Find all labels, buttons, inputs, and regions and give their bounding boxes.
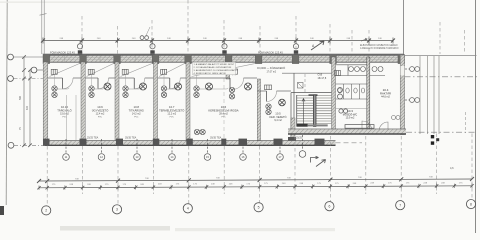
stair walk line	[302, 99, 305, 125]
fom magok line	[43, 53, 405, 55]
thin wall 10.5/stair lobby	[291, 73, 294, 140]
radiator washroom	[335, 71, 341, 76]
left axis bubble C	[8, 142, 14, 148]
svg-text:10.5: 10.5	[275, 112, 281, 116]
fixtures room 10.6	[206, 83, 252, 90]
tick on edge	[40, 14, 47, 16]
left vertical dim lines	[22, 55, 32, 147]
main south wall	[43, 139, 336, 141]
intermediate axis stubs	[83, 188, 437, 194]
svg-text:PVC: PVC	[98, 116, 103, 118]
radiator room 10.6 right bay	[231, 69, 272, 90]
dash-dot line upper right	[405, 76, 478, 78]
overall dim line	[37, 177, 474, 183]
label 10.4	[380, 88, 391, 99]
detail dim line	[37, 184, 473, 190]
svg-text:ELBONTANDO VASBETON GEREN: ELBONTANDO VASBETON GEREN	[360, 44, 398, 47]
left axis bubble E	[8, 54, 14, 60]
window piers	[43, 55, 405, 64]
washroom partition	[367, 57, 370, 131]
svg-text:2: 2	[45, 209, 47, 213]
cupboard room 10.10	[66, 95, 68, 141]
section line A vertical	[403, 0, 405, 57]
fixture circle room 10.8	[140, 83, 147, 90]
partition wall 4	[186, 62, 190, 141]
svg-text:7: 7	[399, 204, 401, 208]
svg-text:12,2 m2: 12,2 m2	[167, 113, 176, 116]
svg-text:3. ÁLMENNYEZET: 10 CM ÁSVÁNYGY: 3. ÁLMENNYEZET: 10 CM ÁSVÁNYGYAPOT	[194, 69, 239, 72]
room 10.8 TITKÁRSÁG	[119, 64, 154, 98]
thin wall 10.6/10.5	[257, 79, 260, 141]
svg-text:10.10: 10.10	[61, 105, 68, 109]
wc stalls	[336, 84, 367, 99]
svg-text:10.3: 10.3	[347, 109, 353, 113]
top edge smudge	[0, 2, 300, 3]
window mullions	[65, 56, 385, 63]
black markers	[431, 135, 434, 138]
svg-text:4. BURKOLATOK: GRES LAPOK: 4. BURKOLATOK: GRES LAPOK	[194, 72, 227, 75]
label room 10.7	[159, 105, 184, 118]
washbasins	[336, 65, 386, 76]
stair flights	[297, 96, 332, 124]
room 10.7 TERMELÉSVEZETÖ	[158, 64, 187, 98]
ramp lines	[420, 56, 439, 134]
fixture circle room 10.7	[175, 83, 182, 90]
svg-text:15,6 m2: 15,6 m2	[60, 113, 69, 116]
column marks above wall	[78, 50, 298, 54]
svg-text:15,9 m2: 15,9 m2	[346, 117, 355, 120]
TEA labels	[87, 137, 303, 140]
left axis bubble D	[8, 76, 14, 82]
svg-text:PVC: PVC	[221, 116, 226, 118]
label room 10.6	[208, 105, 238, 118]
stub wall over corridor	[226, 62, 230, 79]
bench	[345, 125, 374, 129]
stair mid stringer	[313, 95, 316, 127]
bottom grid dashed axes	[47, 134, 472, 189]
label 10.3	[343, 109, 358, 120]
top bubble stubs	[80, 41, 296, 44]
svg-text:10.7: 10.7	[169, 105, 175, 109]
sheet left border	[6, 0, 7, 205]
svg-text:35/35 TEA: 35/35 TEA	[210, 137, 222, 140]
south wall of stair/washroom wing	[288, 128, 406, 130]
dim connectors to circles	[47, 188, 472, 206]
north exterior wall	[43, 54, 405, 56]
section arrow A top	[311, 41, 324, 50]
svg-text:640: 640	[26, 105, 29, 110]
svg-text:9,4 m2: 9,4 m2	[274, 119, 282, 122]
bubbles right of east wall	[405, 67, 420, 103]
svg-text:4,6: 4,6	[450, 166, 454, 170]
svg-text:10.9: 10.9	[97, 105, 103, 109]
note block	[193, 62, 236, 74]
fixture circle room 10.9	[104, 83, 111, 90]
svg-text:25/25 TEA: 25/25 TEA	[87, 137, 99, 140]
svg-text:10.8: 10.8	[134, 105, 140, 109]
stair landing line	[282, 72, 336, 74]
partition wall 1	[81, 62, 85, 141]
pair circles near south wall 10.6	[194, 129, 205, 134]
room 10.9 ÜGYVEZETÖ	[85, 64, 115, 98]
dash-dot line lower right	[406, 131, 477, 133]
building edge extended up	[41, 0, 43, 54]
pair circles room 10.6 second bay	[229, 87, 234, 99]
svg-text:8: 8	[470, 202, 472, 206]
svg-text:14,2 m2: 14,2 m2	[132, 113, 141, 116]
sub-axis bubbles row	[63, 135, 306, 160]
label room 10.9	[92, 105, 109, 118]
svg-text:44,6 m2: 44,6 m2	[381, 96, 390, 99]
svg-text:PVC: PVC	[134, 116, 139, 118]
shaft box	[298, 83, 304, 89]
dash continuation south wall	[336, 142, 363, 144]
room 10.10 TÁRGYALÓ	[48, 64, 81, 98]
top dimension line	[41, 38, 395, 44]
partition wall 2	[115, 62, 119, 141]
section arrow A bottom	[311, 156, 319, 162]
svg-text:6: 6	[328, 205, 330, 209]
stair top edge	[291, 92, 336, 94]
svg-text:25/25: 25/25	[296, 137, 303, 140]
bottom smudge	[60, 226, 170, 231]
svg-text:1. A MARADÓ FALAZOTT SZERK. BO: 1. A MARADÓ FALAZOTT SZERK. BONT	[194, 63, 235, 66]
window glazing lines	[43, 57, 405, 59]
short dashed vert right	[465, 112, 467, 133]
svg-text:PVC: PVC	[170, 116, 175, 118]
top axis bubbles	[77, 27, 298, 49]
svg-text:35/35 TEA: 35/35 TEA	[125, 137, 137, 140]
top dim numbers	[60, 38, 383, 40]
west exterior wall	[43, 62, 48, 141]
svg-text:A MEGLEVO FODEMRE TAMASZKO: A MEGLEVO FODEMRE TAMASZKO	[360, 47, 399, 50]
room 10.5 KER.VEZETO	[258, 90, 267, 92]
east wall opening	[400, 66, 404, 76]
svg-text:17,07 m2: 17,07 m2	[267, 72, 277, 74]
grid axes dashed (top)	[82, 0, 465, 54]
label room 10.10	[57, 105, 71, 118]
svg-text:10.6: 10.6	[221, 105, 227, 109]
east exterior wall	[400, 55, 404, 135]
svg-text:598: 598	[19, 95, 22, 100]
svg-text:4: 4	[187, 207, 189, 211]
room 10.6 KERESKEDELMI IRODA	[190, 64, 257, 98]
svg-text:16×17,8: 16×17,8	[318, 77, 327, 80]
wc pair circles	[338, 88, 348, 114]
note text top right	[360, 44, 399, 50]
parapet cap right	[405, 55, 477, 57]
svg-text:3: 3	[116, 208, 118, 212]
main axis bubbles bottom	[42, 200, 476, 215]
doors bottom washrooms	[362, 121, 372, 131]
svg-text:5: 5	[258, 206, 260, 210]
scan blob left edge	[0, 206, 4, 215]
axis dash through plan x224	[223, 64, 225, 139]
small pair in 10.4	[392, 116, 401, 120]
left sub bubble	[31, 67, 37, 73]
sheet right border	[475, 0, 477, 233]
washroom inner line	[336, 107, 367, 109]
stair east wall	[332, 57, 336, 131]
dim numbers	[52, 182, 464, 186]
partition wall 3	[154, 62, 158, 141]
svg-text:2. ÚJ VÁLASZFALAK: GIPSZKARTON: 2. ÚJ VÁLASZFALAK: GIPSZKARTON	[194, 66, 232, 69]
label room 10.8	[129, 105, 144, 118]
svg-text:10.4: 10.4	[383, 88, 389, 92]
svg-text:12,4 m2: 12,4 m2	[96, 113, 105, 116]
svg-text:±0,0000 — KÖZLEKEDÖ: ±0,0000 — KÖZLEKEDÖ	[257, 67, 285, 70]
svg-text:28,4 m2: 28,4 m2	[219, 113, 228, 116]
south wall piers	[43, 139, 325, 146]
